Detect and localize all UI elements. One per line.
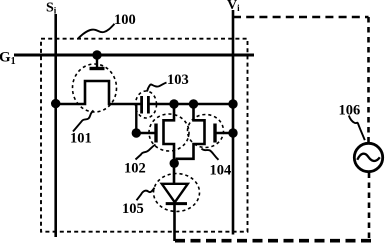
transistor 101: gate lead and gate bar (96, 55, 98, 67)
svg-text:103: 103 (167, 72, 189, 88)
transistor 104: channel bracket and leads (176, 104, 205, 159)
svg-text:106: 106 (339, 103, 361, 119)
wire: G1 gate line (horizontal) (14, 54, 254, 57)
pixel boundary box 100 (dashed) (41, 39, 248, 232)
svg-text:Vi: Vi (227, 0, 240, 13)
transistor 104: gate bar and lead (213, 124, 216, 143)
transistor 102: channel bracket and leads (164, 104, 175, 184)
leader for label 106 (349, 116, 365, 141)
capacitor 103: dashed ellipse (136, 91, 157, 118)
leader for label 105 (137, 188, 155, 201)
diode 105 (EL element): triangle (162, 184, 188, 203)
node: drain of 104 on node row (189, 99, 198, 108)
wire: storage node row y=104 from S line to capacitor (56, 81, 141, 104)
svg-text:104: 104 (210, 163, 232, 179)
leader for label 100 (78, 24, 114, 38)
transistor 102: dashed ellipse (149, 114, 189, 151)
svg-text:G1: G1 (0, 50, 16, 68)
wire: external loop right dashed (down to AC source) (367, 17, 370, 143)
wire: external loop bottom dashed rail (175, 239, 371, 243)
transistor 102: gate bar (154, 124, 157, 143)
wire: node row from capacitor to Vi line (149, 103, 233, 106)
node: common source node above diode (170, 159, 179, 168)
source 106: sine symbol (357, 154, 380, 161)
diode 105: cathode bar (166, 202, 187, 205)
wire: diode cathode down to bottom rail (173, 205, 176, 242)
svg-text:Si: Si (46, 1, 57, 16)
node: drain of 102 on node row (169, 99, 178, 108)
node: node row joins Vi line (228, 99, 237, 108)
node: gate node of 102 (132, 128, 141, 137)
leader for label 104 (202, 149, 219, 160)
wire: Vi supply line (vertical, right) (232, 10, 235, 235)
junction dots (51, 50, 238, 168)
node: gate of 101 on G1 line (92, 50, 101, 59)
leader for label 101 (73, 111, 94, 132)
wire: Sn data line (vertical, left) (54, 14, 57, 237)
source 106: AC supply circle (354, 143, 382, 171)
node: 101 source on Sn line (51, 99, 60, 108)
node: gate of 104 on Vi line (228, 128, 237, 137)
leader for label 103 (147, 83, 167, 92)
transistor 101: dashed ellipse (73, 64, 117, 112)
svg-text:102: 102 (124, 161, 146, 177)
wire: external loop top dashed (from Vi top going right) (233, 16, 369, 19)
svg-text:101: 101 (70, 131, 92, 147)
capacitor 103: plates (140, 96, 143, 114)
wire: external loop right dashed (below AC source) (368, 173, 371, 241)
svg-text:100: 100 (114, 12, 136, 28)
leader for label 102 (136, 145, 156, 160)
transistor 104: dashed ellipse (188, 115, 224, 148)
wire: drop from node row to gate of 102 (136, 104, 154, 133)
leader lines (73, 24, 365, 201)
svg-text:105: 105 (122, 201, 144, 217)
diode 105: dashed circle (154, 174, 200, 212)
